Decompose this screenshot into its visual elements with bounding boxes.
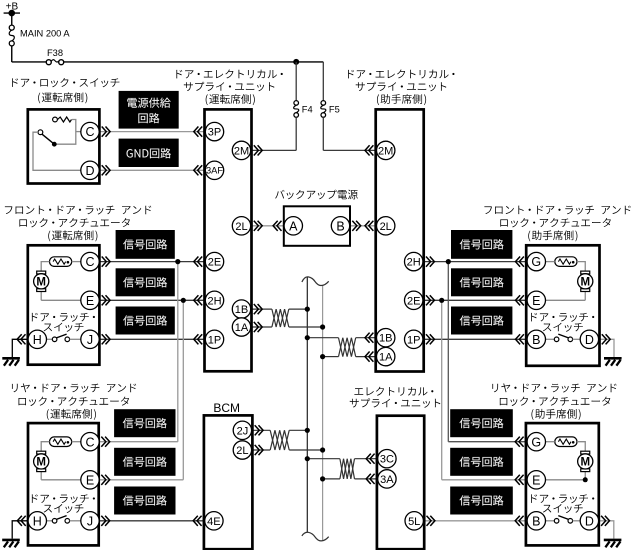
svg-text:J: J bbox=[87, 514, 93, 528]
svg-text:BCM: BCM bbox=[213, 401, 240, 415]
svg-text:B: B bbox=[532, 333, 540, 347]
svg-text:1B: 1B bbox=[235, 304, 248, 316]
svg-text:2L: 2L bbox=[380, 221, 392, 233]
svg-text:3C: 3C bbox=[380, 454, 394, 466]
svg-text:1A: 1A bbox=[235, 322, 249, 334]
svg-text:3P: 3P bbox=[208, 127, 221, 139]
svg-text:2M: 2M bbox=[234, 145, 249, 157]
svg-text:C: C bbox=[85, 435, 94, 449]
svg-text:2E: 2E bbox=[208, 257, 221, 269]
svg-text:3A: 3A bbox=[380, 474, 394, 486]
svg-text:M: M bbox=[580, 457, 590, 469]
svg-text:F38: F38 bbox=[47, 48, 63, 58]
svg-text:F5: F5 bbox=[329, 104, 340, 114]
svg-text:1P: 1P bbox=[407, 334, 420, 346]
svg-text:2L: 2L bbox=[235, 221, 247, 233]
svg-text:4E: 4E bbox=[207, 516, 220, 528]
svg-text:C: C bbox=[85, 125, 94, 139]
svg-text:MAIN 200 A: MAIN 200 A bbox=[20, 29, 70, 39]
svg-text:J: J bbox=[87, 333, 93, 347]
svg-text:+B: +B bbox=[6, 2, 19, 13]
svg-text:2L: 2L bbox=[236, 445, 248, 457]
svg-text:2H: 2H bbox=[407, 257, 421, 269]
svg-text:A: A bbox=[289, 219, 298, 233]
svg-text:E: E bbox=[532, 294, 540, 308]
svg-text:M: M bbox=[36, 277, 46, 289]
svg-text:E: E bbox=[86, 294, 94, 308]
svg-text:B: B bbox=[336, 219, 344, 233]
svg-text:2E: 2E bbox=[407, 295, 420, 307]
svg-text:D: D bbox=[85, 164, 94, 178]
svg-text:H: H bbox=[33, 333, 42, 347]
svg-text:H: H bbox=[33, 514, 42, 528]
svg-text:5L: 5L bbox=[408, 516, 420, 528]
svg-text:M: M bbox=[580, 277, 590, 289]
svg-text:G: G bbox=[531, 255, 541, 269]
svg-text:M: M bbox=[36, 457, 46, 469]
svg-text:C: C bbox=[85, 255, 94, 269]
svg-text:E: E bbox=[86, 473, 94, 487]
svg-text:E: E bbox=[532, 473, 540, 487]
svg-text:F4: F4 bbox=[302, 104, 313, 114]
svg-text:2J: 2J bbox=[237, 425, 249, 437]
svg-text:2H: 2H bbox=[207, 295, 221, 307]
svg-text:1A: 1A bbox=[379, 352, 393, 364]
svg-text:1P: 1P bbox=[208, 334, 221, 346]
svg-text:D: D bbox=[585, 333, 594, 347]
svg-text:2M: 2M bbox=[378, 145, 393, 157]
svg-text:B: B bbox=[532, 514, 540, 528]
svg-text:G: G bbox=[531, 435, 541, 449]
svg-text:D: D bbox=[585, 514, 594, 528]
svg-text:3AF: 3AF bbox=[206, 166, 223, 176]
svg-text:1B: 1B bbox=[379, 333, 392, 345]
